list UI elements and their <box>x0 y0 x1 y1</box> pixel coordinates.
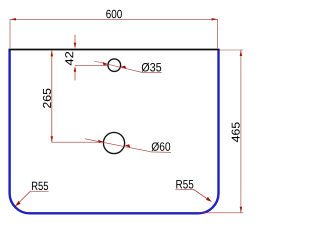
plate top edge (black) <box>9 49 220 51</box>
R55 bottom-right label underline <box>175 188 193 190</box>
Ø60 left arrow (points ESE at circle edge) <box>98 140 104 143</box>
R55 bottom-right leader <box>194 189 211 201</box>
R55 bottom-left label <box>32 182 48 190</box>
dimension 265: dimension line <box>51 50 53 142</box>
dimension 265: top arrow <box>51 50 53 56</box>
hole Ø60 (large circle) <box>103 132 124 153</box>
dimension 42: lower segment with up arrow (outside, below hole centerline) <box>74 71 76 80</box>
R55 bottom-right label <box>176 180 193 188</box>
Ø35 label <box>142 63 162 72</box>
dimension 42: label (rotated) <box>65 52 73 66</box>
hole Ø35 (small circle) <box>108 59 121 72</box>
plate outline: blue sides/bottom with R55 rounded bottom corners <box>10 50 219 214</box>
Ø60 diametral leader line <box>85 139 151 152</box>
dimension 600: left arrow <box>10 18 16 20</box>
R55 bottom-left arrow (points SW at arc) <box>15 201 21 206</box>
dimension 600: dimension line <box>10 18 218 20</box>
dimension 465: extension line top <box>220 49 243 51</box>
Ø35 diametral leader line <box>94 61 141 72</box>
Ø60 label <box>152 142 171 151</box>
dimension 465: dimension line <box>240 50 242 213</box>
Ø35 left arrow (points ESE at circle edge) <box>103 62 109 65</box>
Ø60 label underline <box>151 151 172 153</box>
dimension 265: label (rotated) <box>43 89 51 108</box>
dimension 465: top arrow <box>240 50 242 56</box>
dimension 600: right arrow <box>212 18 218 20</box>
dimension 600: extension line left <box>9 19 11 48</box>
dimension 265: bottom arrow <box>51 136 53 142</box>
Ø35 label underline <box>141 71 162 73</box>
Ø35 right arrow (points WNW at circle edge) <box>121 66 127 69</box>
dimension 42: upper segment with down arrow (outside, above top edge) <box>74 35 76 44</box>
R55 bottom-left leader <box>16 191 30 205</box>
dimension 600: extension line right <box>217 19 219 48</box>
centerline from 42 dim to small hole <box>75 65 108 67</box>
dimension 465: extension line bottom <box>201 212 243 214</box>
R55 bottom-left label underline <box>31 190 49 192</box>
centerline from 265 dim to large hole <box>52 141 104 143</box>
R55 bottom-right arrow (points SE at arc) <box>206 197 212 202</box>
dimension 600: label <box>106 10 122 18</box>
dimension 465: bottom arrow <box>240 207 242 213</box>
Ø60 right arrow (points WNW at circle edge) <box>125 144 131 147</box>
dimension 465: label (rotated) <box>232 122 240 142</box>
